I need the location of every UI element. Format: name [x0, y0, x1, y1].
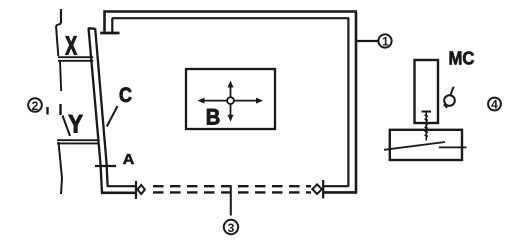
svg-text:X: X — [65, 31, 77, 61]
leader line of 1 — [357, 40, 378, 42]
screw shaft — [425, 112, 428, 141]
svg-text:C: C — [119, 84, 132, 107]
valve right diamond — [312, 184, 322, 194]
wire dash 2 — [59, 104, 61, 115]
wire jog — [56, 24, 61, 26]
wire top segment of gun — [60, 9, 62, 24]
callout circle 2 — [28, 98, 42, 112]
chamber inner wall bottom-right — [324, 185, 348, 187]
chamber outer wall bottom-left — [101, 192, 137, 195]
svg-text:4: 4 — [491, 98, 498, 112]
svg-text:B: B — [206, 105, 221, 130]
leader tick of Y — [63, 116, 71, 137]
svg-text:MC: MC — [449, 48, 475, 68]
dashed pipe upper — [153, 185, 311, 187]
svg-text:3: 3 — [228, 221, 235, 235]
callout circle 3 — [224, 220, 238, 234]
valve left diamond — [138, 185, 145, 194]
svg-text:2: 2 — [32, 99, 39, 113]
dashed pipe lower — [153, 191, 311, 193]
pickup hook lower tick — [444, 105, 447, 108]
plate Y upper line — [57, 139, 100, 141]
plate C right edge — [95, 29, 107, 187]
crosshair vertical arrow — [228, 81, 234, 122]
wire below plate Y — [59, 142, 63, 194]
plate Y lower line — [57, 142, 100, 144]
electrode inner stem — [111, 18, 113, 32]
wire upper-left segment — [56, 26, 58, 57]
screen box B — [186, 69, 275, 129]
plate C top cap — [88, 27, 95, 30]
valve right stem — [322, 180, 324, 199]
spot circle at crosshair centre — [227, 97, 234, 104]
svg-text:1: 1 — [382, 35, 389, 49]
tick A on plate — [95, 165, 116, 167]
chamber outer wall right — [355, 12, 358, 194]
pickup hook tail — [451, 87, 454, 96]
screw cap — [422, 111, 432, 113]
pickup hook circle — [444, 95, 455, 106]
chamber inner wall right — [347, 18, 349, 187]
leader line of C — [107, 106, 118, 127]
leader line of 3 — [230, 186, 232, 216]
lever line left — [384, 142, 445, 150]
callout circle 1 — [378, 34, 391, 47]
lever line right — [439, 146, 467, 148]
wire below plate X — [60, 62, 61, 92]
plate X upper line — [58, 56, 93, 58]
chamber inner wall top — [112, 17, 349, 19]
svg-text:A: A — [123, 152, 135, 168]
chamber outer wall bottom-right — [324, 191, 357, 194]
plate C left edge — [89, 28, 103, 193]
crosshair horizontal arrow — [198, 98, 264, 104]
valve left stem — [135, 181, 137, 199]
chamber inner wall bottom-left — [107, 185, 137, 187]
plate X lower line — [58, 60, 93, 62]
chamber outer wall top — [105, 12, 358, 32]
wire dash 1 — [46, 107, 48, 115]
svg-text:Y: Y — [68, 110, 83, 138]
electrode foot at top-left — [100, 32, 119, 35]
callout circle 4 — [488, 98, 501, 111]
microbalance body — [415, 60, 439, 123]
base block — [390, 130, 462, 160]
